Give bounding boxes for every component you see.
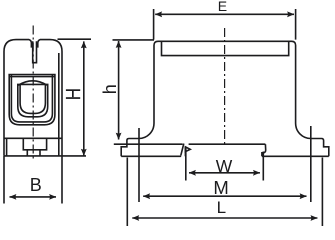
svg-text:L: L bbox=[217, 198, 226, 217]
svg-text:W: W bbox=[216, 156, 233, 176]
svg-text:E: E bbox=[218, 0, 227, 14]
svg-text:M: M bbox=[213, 177, 228, 198]
svg-text:B: B bbox=[30, 175, 42, 195]
svg-text:h: h bbox=[100, 84, 120, 94]
